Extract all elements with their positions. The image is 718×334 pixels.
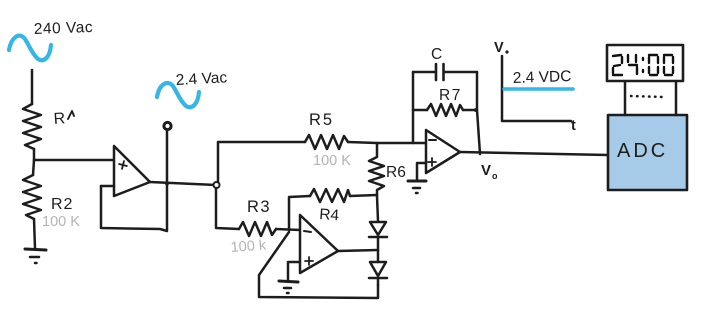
AC sine symbol 240 Vac	[9, 36, 51, 61]
svg-text:R7: R7	[439, 87, 462, 104]
resistor R7	[427, 104, 463, 116]
junction dot R7/right	[474, 108, 478, 112]
resistor R3	[239, 222, 276, 236]
feedback left vertical (U3)	[412, 72, 415, 143]
test point wire	[166, 131, 169, 184]
svg-text:R6: R6	[386, 164, 406, 181]
ground (U3)	[408, 180, 426, 183]
wire node to R2	[33, 160, 34, 175]
U2 output wire	[338, 250, 378, 251]
display module box	[607, 45, 683, 81]
op-amp U3	[426, 130, 460, 173]
svg-text:R3: R3	[247, 198, 271, 216]
wire node A up to R5 row	[218, 142, 305, 182]
wire from source to R1	[31, 70, 34, 104]
svg-text:ADC: ADC	[617, 140, 668, 162]
svg-text:o: o	[492, 171, 498, 181]
ground (U2)	[279, 281, 298, 282]
U3 output wire Vo to ADC	[460, 152, 608, 155]
op-amp U2	[300, 215, 338, 273]
diode D2	[377, 250, 380, 262]
node A (U1 output)	[214, 182, 220, 188]
svg-text:V: V	[494, 40, 504, 56]
wire display to ADC left	[624, 82, 627, 115]
wire node A down to R3	[216, 188, 239, 229]
wire D2 feedback diagonal	[259, 232, 378, 298]
wire R1 to node	[33, 149, 36, 160]
capacitor C wires	[413, 71, 477, 74]
diode D1	[370, 222, 386, 235]
resistor R6	[369, 143, 384, 196]
svg-text:R: R	[53, 110, 66, 128]
svg-text:100 k: 100 k	[230, 238, 267, 256]
feedback right vertical (U3)	[477, 72, 480, 154]
U1 inverting input tick	[101, 185, 114, 188]
wire R3 to U2 - input	[276, 229, 300, 230]
U1 output wire	[150, 182, 216, 185]
wire R5 to U3 - input	[348, 142, 426, 143]
U1 feedback wire	[101, 186, 167, 231]
svg-text:t: t	[571, 118, 576, 134]
resistor R2	[23, 175, 41, 219]
wire R7 right	[463, 109, 476, 112]
capacitor C plates	[436, 64, 444, 80]
ADC block	[608, 115, 687, 190]
svg-text:V: V	[481, 162, 491, 179]
dotted link display/ADC	[631, 96, 664, 97]
svg-text:2.4 Vac: 2.4 Vac	[175, 69, 227, 89]
wire node to op-amp U1 + input	[34, 159, 114, 162]
ground (R2)	[25, 249, 46, 250]
wire R4 to R6 junction	[350, 195, 377, 196]
graph 2.4 VDC level line	[504, 87, 573, 91]
svg-text:R5: R5	[309, 111, 334, 129]
svg-text:R4: R4	[319, 206, 340, 224]
junction dot	[165, 182, 169, 186]
display digits 24:00	[613, 55, 673, 75]
svg-text:100 K: 100 K	[313, 153, 351, 169]
graph axes	[502, 56, 571, 121]
svg-text:R2: R2	[51, 196, 73, 213]
resistor R5	[305, 135, 348, 149]
resistor R4	[310, 189, 350, 202]
svg-text:2.4 VDC: 2.4 VDC	[513, 68, 572, 87]
svg-text:C: C	[431, 46, 442, 63]
wire R2 to ground	[34, 219, 35, 248]
resistor R1	[23, 104, 41, 149]
wire R7 left	[413, 109, 427, 112]
wire U3 + input to ground	[417, 163, 426, 180]
AC sine symbol 2.4 Vac	[157, 83, 199, 107]
wire display to ADC right	[675, 82, 678, 115]
wire U2 + input to ground	[288, 262, 300, 280]
svg-text:240 Vac: 240 Vac	[34, 19, 94, 38]
wire R4 feedback left	[289, 196, 310, 230]
op-amp U1	[114, 146, 150, 196]
wire R6 to diode D1	[377, 196, 378, 221]
test point terminal	[164, 122, 171, 129]
svg-text:100 K: 100 K	[42, 214, 80, 230]
